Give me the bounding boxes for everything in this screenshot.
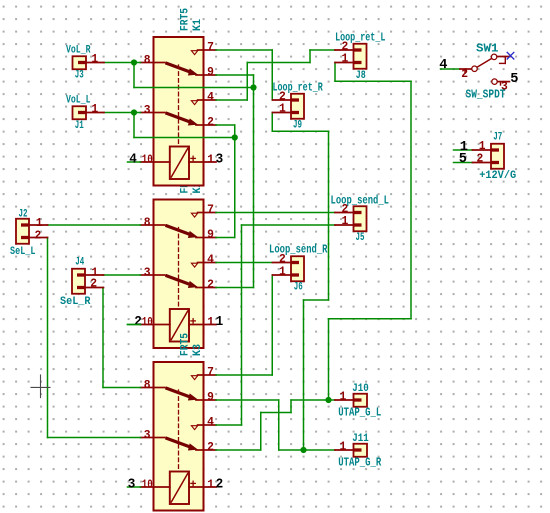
svg-text:2: 2	[207, 440, 214, 454]
svg-text:5: 5	[510, 71, 518, 87]
svg-text:1: 1	[207, 152, 214, 166]
svg-text:UTAP_G_R: UTAP_G_R	[338, 456, 381, 469]
svg-text:3: 3	[216, 152, 224, 168]
svg-text:J5: J5	[356, 232, 365, 244]
svg-text:1: 1	[216, 314, 224, 330]
svg-text:2: 2	[461, 67, 468, 81]
svg-text:J8: J8	[356, 70, 366, 82]
svg-text:UTAP_G_L: UTAP_G_L	[338, 406, 381, 419]
svg-text:J1: J1	[75, 120, 84, 132]
svg-text:4: 4	[439, 57, 447, 73]
svg-text:2: 2	[207, 278, 214, 292]
svg-text:2: 2	[134, 314, 142, 330]
svg-text:FRT5: FRT5	[179, 8, 191, 31]
svg-text:1: 1	[91, 102, 98, 116]
svg-text:8: 8	[144, 378, 151, 392]
svg-text:9: 9	[207, 65, 214, 79]
svg-text:8: 8	[144, 216, 151, 230]
svg-text:4: 4	[207, 415, 214, 429]
svg-text:J3: J3	[75, 70, 84, 82]
svg-text:10: 10	[142, 315, 153, 329]
svg-text:Loop_send_R: Loop_send_R	[269, 243, 328, 256]
svg-text:J4: J4	[75, 257, 84, 269]
svg-text:SW1: SW1	[476, 43, 499, 56]
svg-text:J7: J7	[493, 132, 502, 144]
svg-text:10: 10	[142, 477, 153, 491]
svg-text:5: 5	[459, 151, 467, 167]
svg-text:3: 3	[144, 266, 151, 280]
svg-text:1: 1	[342, 214, 349, 228]
svg-text:1: 1	[340, 390, 347, 404]
svg-text:J11: J11	[352, 433, 369, 445]
svg-text:Loop_send_L: Loop_send_L	[331, 195, 390, 208]
svg-text:7: 7	[207, 203, 214, 217]
svg-text:8: 8	[144, 53, 151, 67]
svg-text:2: 2	[477, 152, 484, 166]
svg-text:SeL_R: SeL_R	[60, 296, 91, 308]
svg-text:3: 3	[144, 103, 151, 117]
svg-text:1: 1	[279, 102, 286, 116]
svg-text:VoL_R: VoL_R	[66, 44, 91, 56]
svg-text:1: 1	[91, 52, 98, 66]
svg-text:10: 10	[142, 152, 153, 166]
svg-text:VoL_L: VoL_L	[66, 94, 91, 106]
svg-text:7: 7	[207, 365, 214, 379]
svg-text:1: 1	[279, 265, 286, 279]
svg-text:4: 4	[207, 90, 214, 104]
svg-text:FRT5: FRT5	[179, 333, 191, 356]
svg-text:4: 4	[207, 253, 214, 267]
svg-text:K1: K1	[192, 19, 204, 31]
svg-text:4: 4	[129, 151, 137, 167]
svg-text:J10: J10	[352, 383, 369, 395]
svg-text:2: 2	[35, 228, 42, 242]
svg-text:J6: J6	[294, 281, 303, 293]
svg-text:3: 3	[128, 476, 136, 492]
svg-text:9: 9	[207, 390, 214, 404]
svg-text:1: 1	[342, 52, 349, 66]
svg-text:9: 9	[207, 228, 214, 242]
svg-text:1: 1	[207, 477, 214, 491]
svg-text:J2: J2	[19, 208, 28, 220]
svg-text:+12V/G: +12V/G	[479, 170, 516, 182]
svg-text:3: 3	[144, 428, 151, 442]
svg-text:2: 2	[216, 477, 224, 493]
svg-text:K3: K3	[192, 344, 204, 356]
svg-text:1: 1	[340, 440, 347, 454]
svg-text:SW_SPDT: SW_SPDT	[466, 89, 506, 102]
svg-text:2: 2	[207, 115, 214, 129]
svg-text:1: 1	[207, 315, 214, 329]
svg-text:3: 3	[501, 80, 508, 94]
svg-text:7: 7	[207, 40, 214, 54]
svg-text:J9: J9	[293, 119, 302, 131]
svg-text:2: 2	[90, 277, 97, 291]
svg-text:SeL_L: SeL_L	[10, 246, 36, 258]
